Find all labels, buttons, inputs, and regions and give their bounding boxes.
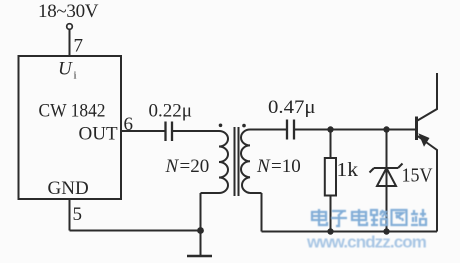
- svg-text:OUT: OUT: [79, 124, 118, 145]
- svg-text:CW 1842: CW 1842: [39, 101, 106, 122]
- svg-text:0.22μ: 0.22μ: [149, 101, 192, 122]
- svg-text:=10: =10: [271, 156, 301, 177]
- svg-text:15V: 15V: [402, 165, 433, 187]
- svg-text:6: 6: [124, 114, 134, 135]
- svg-text:=20: =20: [180, 156, 210, 177]
- svg-text:N: N: [165, 156, 180, 177]
- svg-text:N: N: [256, 156, 271, 177]
- svg-text:U: U: [58, 59, 73, 80]
- svg-text:0.47μ: 0.47μ: [268, 97, 316, 118]
- svg-text:GND: GND: [48, 178, 89, 199]
- svg-text:18~30V: 18~30V: [38, 1, 99, 22]
- svg-text:www.cndzz.com: www.cndzz.com: [306, 233, 427, 252]
- svg-text:7: 7: [74, 36, 84, 57]
- svg-text:i: i: [74, 70, 77, 82]
- svg-text:1k: 1k: [337, 159, 359, 181]
- svg-text:5: 5: [73, 204, 83, 225]
